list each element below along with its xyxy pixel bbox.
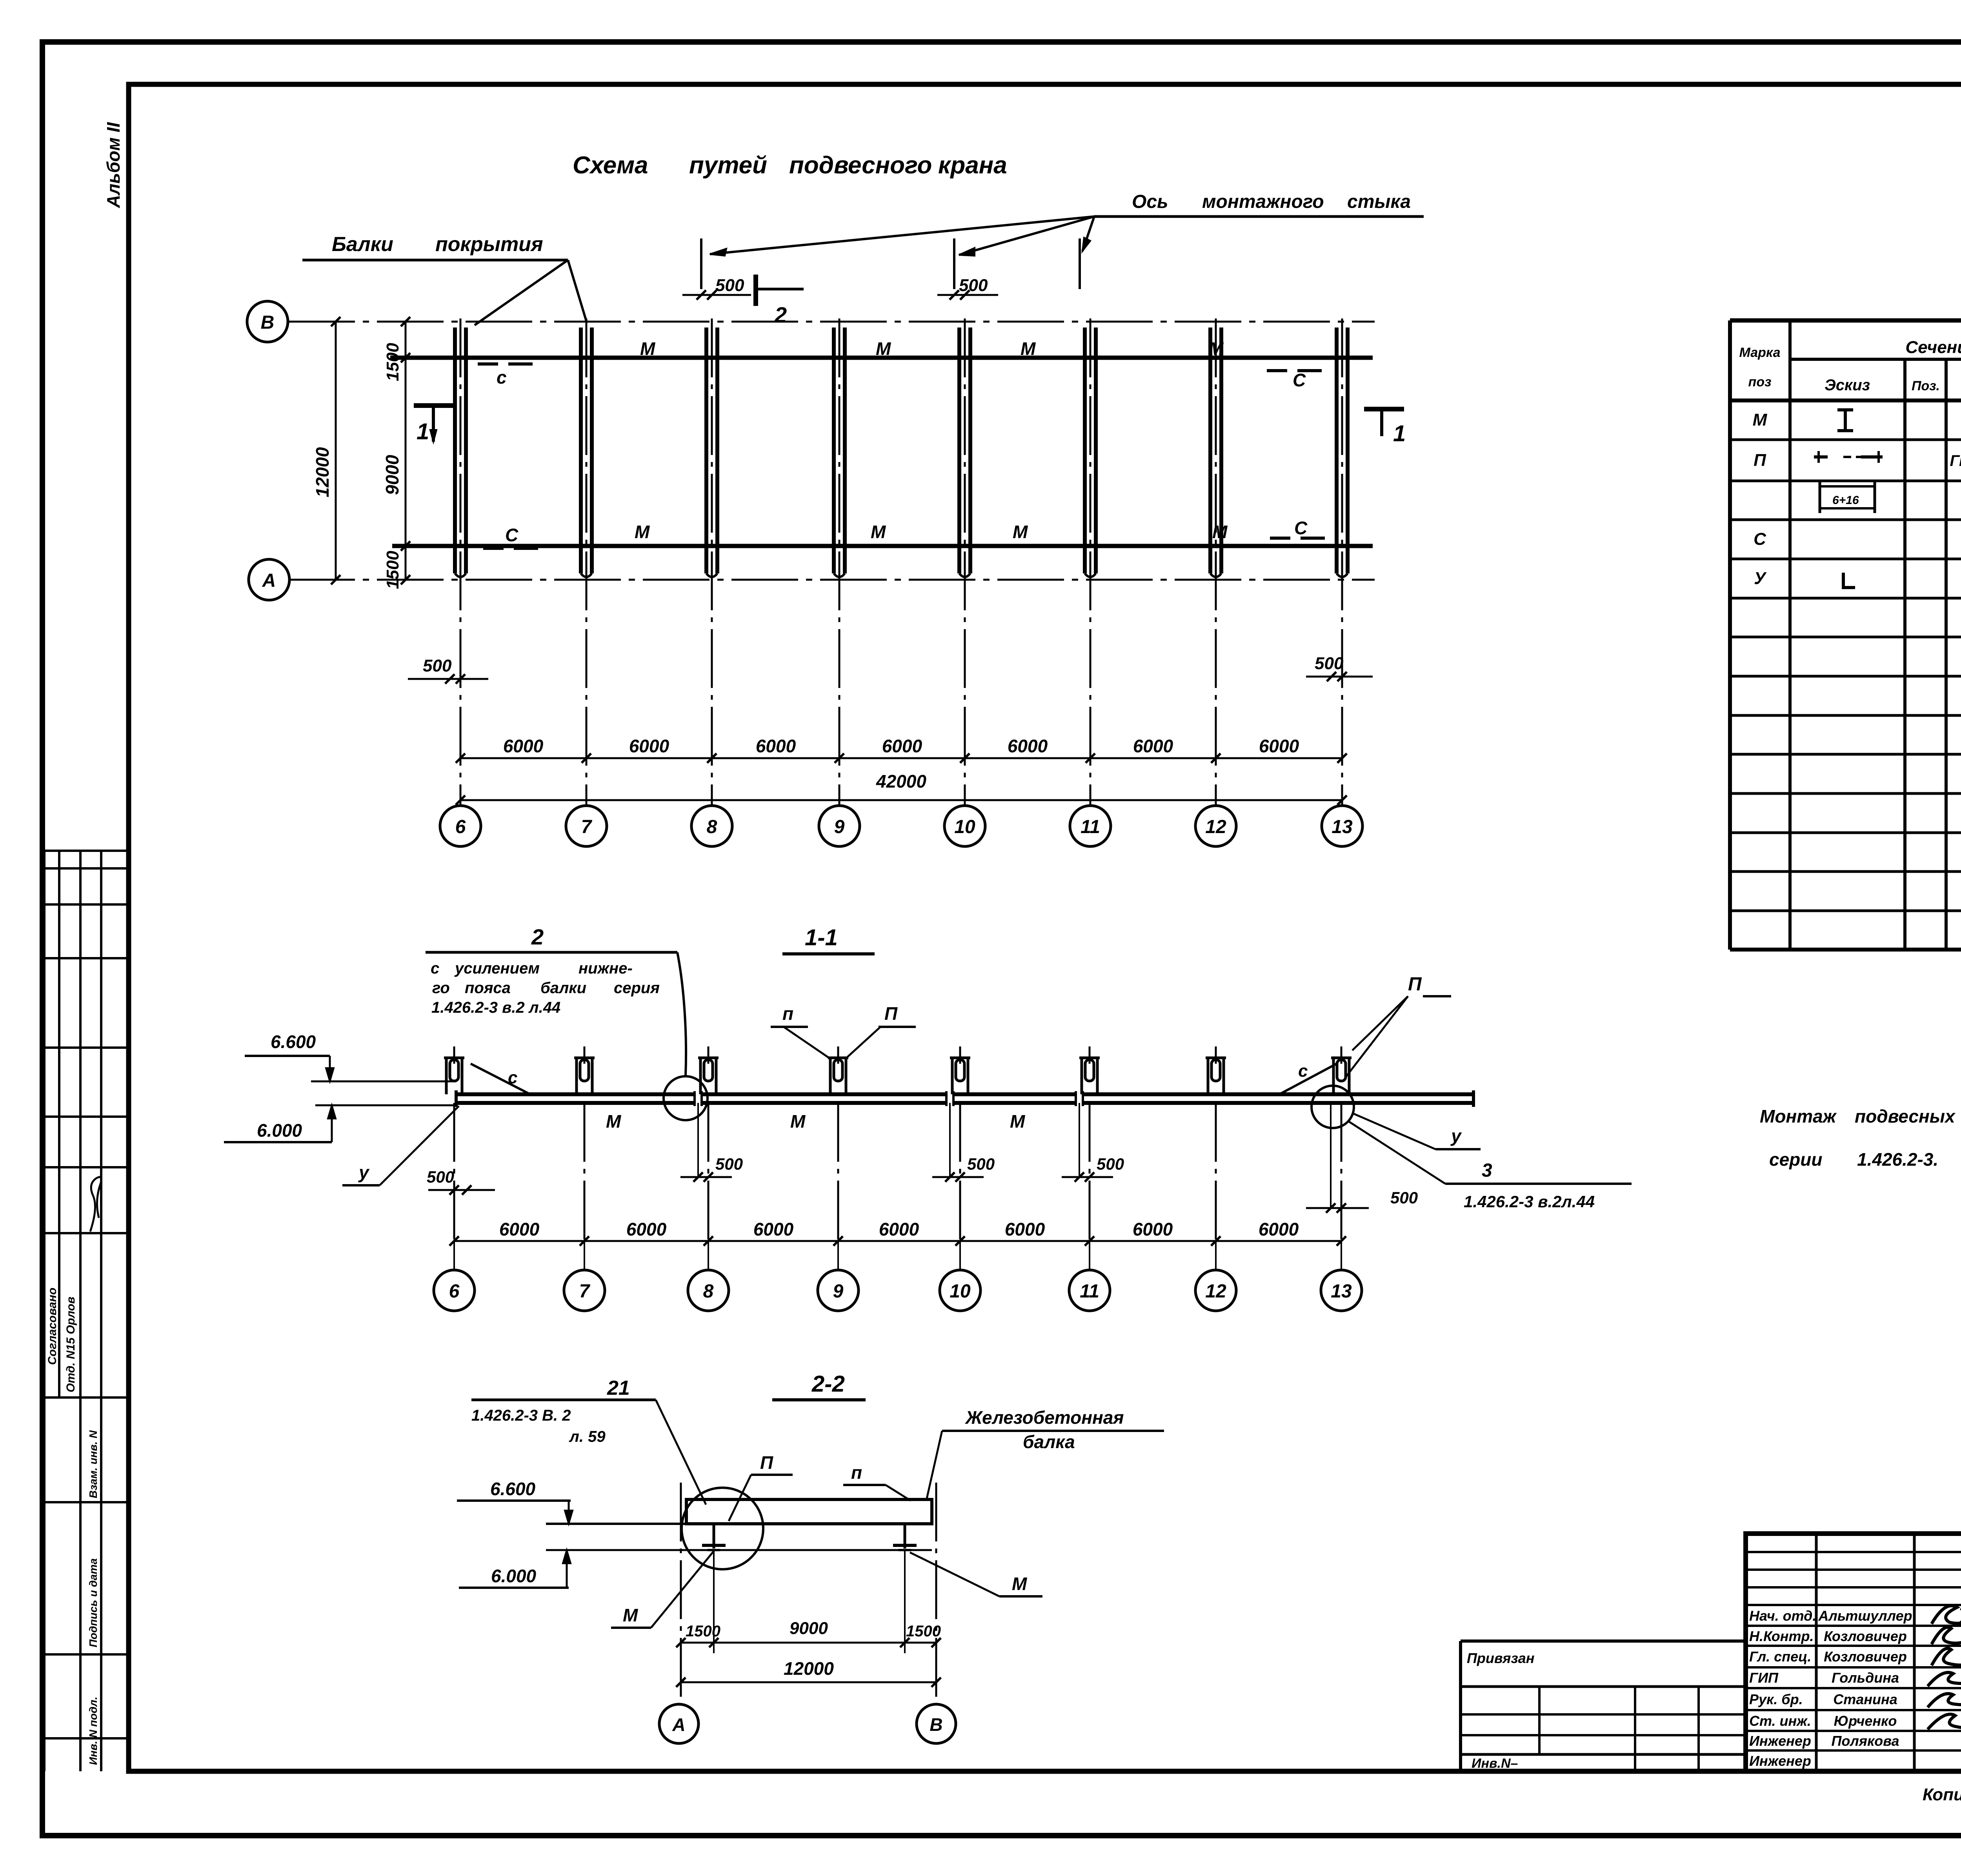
svg-text:10: 10	[950, 1281, 971, 1302]
svg-text:8: 8	[707, 817, 717, 837]
svg-text:с: с	[431, 960, 439, 977]
svg-text:Балки: Балки	[332, 233, 393, 256]
svg-text:Марка: Марка	[1739, 345, 1781, 360]
svg-text:крана: крана	[938, 152, 1007, 179]
svg-text:поз: поз	[1748, 375, 1772, 389]
svg-text:Козловичер: Козловичер	[1824, 1628, 1907, 1644]
svg-text:12000: 12000	[784, 1658, 834, 1679]
svg-text:у: у	[1450, 1126, 1462, 1146]
svg-text:1.426.2-3 в.2 л.44: 1.426.2-3 в.2 л.44	[431, 999, 560, 1016]
svg-text:В: В	[261, 312, 275, 333]
svg-text:Отд. N15 Орлов: Отд. N15 Орлов	[64, 1297, 77, 1392]
svg-text:6: 6	[449, 1281, 460, 1302]
svg-text:6000: 6000	[503, 736, 544, 756]
svg-text:Подпись и дата: Подпись и дата	[87, 1558, 99, 1647]
svg-text:9000: 9000	[382, 455, 402, 495]
svg-text:нижне-: нижне-	[578, 960, 633, 977]
svg-text:Согласовано: Согласовано	[46, 1288, 59, 1365]
svg-text:Инженер: Инженер	[1749, 1733, 1811, 1749]
svg-text:усилением: усилением	[454, 960, 540, 977]
svg-text:9: 9	[833, 1281, 844, 1302]
svg-text:500: 500	[715, 276, 744, 295]
svg-text:А: А	[672, 1714, 685, 1735]
svg-text:с: с	[508, 1068, 517, 1087]
svg-text:Инженер: Инженер	[1749, 1753, 1811, 1769]
svg-text:М: М	[1013, 522, 1028, 542]
svg-text:6000: 6000	[1133, 736, 1173, 756]
svg-text:М: М	[876, 338, 891, 359]
svg-text:путей: путей	[689, 152, 767, 179]
svg-text:500: 500	[959, 276, 988, 295]
svg-text:12: 12	[1205, 1281, 1226, 1302]
svg-text:500: 500	[967, 1155, 995, 1173]
svg-text:М: М	[790, 1111, 806, 1132]
svg-text:500: 500	[1097, 1155, 1124, 1173]
svg-text:М: М	[623, 1605, 639, 1625]
svg-text:6000: 6000	[629, 736, 669, 756]
svg-text:6000: 6000	[499, 1219, 540, 1239]
svg-text:Поз.: Поз.	[1912, 378, 1940, 393]
svg-text:6: 6	[455, 817, 466, 837]
svg-text:Гольдина: Гольдина	[1832, 1670, 1899, 1686]
svg-text:М: М	[1208, 338, 1224, 359]
svg-text:подвесных: подвесных	[1855, 1106, 1956, 1126]
svg-text:Гл. спец.: Гл. спец.	[1749, 1649, 1811, 1665]
svg-text:у: у	[358, 1162, 370, 1183]
svg-text:Ось: Ось	[1132, 191, 1168, 212]
svg-text:Привязан: Привязан	[1467, 1650, 1535, 1666]
svg-text:подвесного: подвесного	[789, 152, 932, 179]
svg-text:42000: 42000	[876, 771, 926, 792]
svg-text:6000: 6000	[1005, 1219, 1045, 1239]
svg-text:Альбом II: Альбом II	[103, 122, 124, 208]
svg-text:6000: 6000	[756, 736, 796, 756]
svg-text:Станина: Станина	[1833, 1691, 1897, 1707]
svg-text:500: 500	[427, 1168, 454, 1186]
svg-text:С: С	[505, 525, 518, 545]
svg-text:500: 500	[423, 656, 452, 675]
svg-text:пояса: пояса	[465, 979, 511, 997]
svg-text:ГИП: ГИП	[1749, 1670, 1779, 1686]
svg-text:6.000: 6.000	[491, 1566, 537, 1586]
svg-text:Альтшуллер: Альтшуллер	[1818, 1608, 1912, 1624]
svg-text:А: А	[262, 570, 276, 591]
svg-text:6000: 6000	[1133, 1219, 1173, 1239]
svg-text:11: 11	[1081, 817, 1100, 837]
svg-text:2: 2	[531, 924, 544, 949]
svg-text:С: С	[1754, 530, 1766, 549]
svg-text:1500: 1500	[906, 1623, 941, 1640]
svg-text:12: 12	[1205, 817, 1226, 837]
svg-text:Монтаж: Монтаж	[1760, 1106, 1837, 1126]
svg-text:М: М	[640, 338, 656, 359]
svg-text:л. 59: л. 59	[569, 1428, 606, 1445]
svg-text:6.000: 6.000	[257, 1120, 302, 1141]
svg-text:Железобетонная: Железобетонная	[965, 1407, 1124, 1428]
svg-text:М: М	[1012, 1574, 1028, 1594]
svg-text:13: 13	[1331, 1281, 1352, 1302]
svg-text:6000: 6000	[879, 1219, 919, 1239]
svg-text:М: М	[1021, 338, 1036, 359]
svg-text:6000: 6000	[1008, 736, 1048, 756]
svg-text:1500: 1500	[686, 1623, 720, 1640]
svg-text:балка: балка	[1023, 1432, 1075, 1452]
svg-text:с: с	[497, 367, 507, 388]
svg-text:Взам. инв. N: Взам. инв. N	[87, 1430, 99, 1498]
svg-text:п: п	[851, 1462, 862, 1483]
svg-text:серия: серия	[614, 979, 660, 997]
svg-text:1.426.2-3 в.2л.44: 1.426.2-3 в.2л.44	[1464, 1192, 1595, 1211]
svg-text:Козловичер: Козловичер	[1824, 1649, 1907, 1665]
svg-text:7: 7	[581, 817, 593, 837]
svg-text:монтажного: монтажного	[1202, 191, 1324, 212]
svg-text:П: П	[1754, 451, 1766, 470]
svg-text:2-2: 2-2	[811, 1371, 845, 1397]
svg-text:7: 7	[579, 1281, 591, 1302]
svg-text:13: 13	[1332, 817, 1353, 837]
svg-text:1: 1	[417, 419, 429, 444]
svg-text:1.426.2-3 В. 2: 1.426.2-3 В. 2	[471, 1407, 571, 1424]
svg-text:9000: 9000	[789, 1619, 828, 1638]
svg-text:9: 9	[834, 817, 845, 837]
svg-text:М: М	[1212, 522, 1228, 542]
svg-text:С: С	[1293, 370, 1306, 390]
svg-text:М: М	[1010, 1111, 1026, 1132]
svg-text:го: го	[432, 979, 450, 997]
svg-text:11: 11	[1080, 1281, 1099, 1302]
svg-text:Эскиз: Эскиз	[1825, 377, 1870, 394]
svg-text:Полякова: Полякова	[1831, 1733, 1899, 1749]
svg-text:Рук. бр.: Рук. бр.	[1749, 1691, 1803, 1707]
svg-text:6000: 6000	[1259, 736, 1299, 756]
svg-text:стыка: стыка	[1347, 191, 1411, 212]
svg-text:6000: 6000	[626, 1219, 667, 1239]
svg-text:6.600: 6.600	[271, 1032, 316, 1052]
svg-text:6000: 6000	[882, 736, 922, 756]
svg-text:12000: 12000	[312, 447, 333, 497]
svg-text:Ст. инж.: Ст. инж.	[1749, 1713, 1811, 1729]
svg-text:1500: 1500	[383, 343, 402, 381]
svg-text:балки: балки	[540, 979, 586, 997]
svg-text:П: П	[884, 1003, 898, 1024]
svg-text:500: 500	[715, 1155, 743, 1173]
svg-text:покрытия: покрытия	[435, 233, 543, 256]
svg-text:6.600: 6.600	[490, 1479, 536, 1499]
svg-text:серии: серии	[1769, 1149, 1822, 1170]
svg-text:П: П	[760, 1452, 773, 1473]
svg-text:6000: 6000	[1259, 1219, 1299, 1239]
svg-text:Н.Контр.: Н.Контр.	[1749, 1628, 1814, 1644]
svg-text:10: 10	[954, 817, 975, 837]
svg-text:С: С	[1294, 518, 1308, 538]
svg-text:Инв. N подл.: Инв. N подл.	[87, 1697, 99, 1765]
svg-text:Нач. отд.: Нач. отд.	[1749, 1608, 1816, 1624]
svg-text:1500: 1500	[383, 551, 402, 589]
svg-text:Схема: Схема	[573, 152, 648, 179]
svg-text:Гнутый профиль: Гнутый профиль	[1950, 452, 1961, 469]
svg-text:М: М	[635, 522, 650, 542]
svg-text:1-1: 1-1	[805, 925, 838, 950]
svg-text:Юрченко: Юрченко	[1834, 1713, 1897, 1729]
svg-text:21: 21	[607, 1377, 630, 1399]
svg-text:6000: 6000	[753, 1219, 794, 1239]
svg-text:500: 500	[1315, 654, 1344, 673]
svg-text:М: М	[606, 1111, 622, 1132]
svg-text:В: В	[930, 1714, 942, 1735]
svg-text:2: 2	[774, 302, 787, 327]
svg-text:Сечение: Сечение	[1905, 338, 1961, 357]
svg-text:М: М	[871, 522, 886, 542]
svg-text:п: п	[782, 1003, 793, 1024]
svg-text:П: П	[1408, 974, 1422, 995]
svg-text:У: У	[1754, 569, 1767, 588]
svg-text:1: 1	[1393, 421, 1406, 446]
svg-text:М: М	[1753, 410, 1768, 429]
svg-text:1.426.2-3.: 1.426.2-3.	[1857, 1149, 1938, 1170]
svg-text:с: с	[1298, 1061, 1308, 1081]
svg-text:8: 8	[703, 1281, 714, 1302]
svg-text:Копир.: Копир.	[1923, 1785, 1961, 1804]
svg-text:Инв.N–: Инв.N–	[1472, 1756, 1518, 1771]
svg-text:3: 3	[1482, 1160, 1492, 1181]
svg-text:500: 500	[1390, 1188, 1418, 1207]
svg-text:6+16: 6+16	[1832, 494, 1859, 507]
